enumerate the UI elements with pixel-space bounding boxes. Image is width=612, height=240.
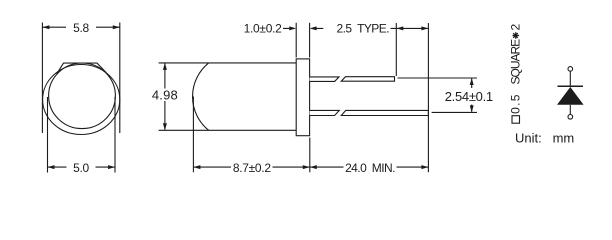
top lead (cathode), second segment to tip [341,77,394,82]
svg-text:2: 2 [509,24,523,31]
D1: anode triangle [557,87,584,105]
D1: bottom terminal circle (anode) [568,115,573,120]
dimension 24.0 MIN.: dimension line [310,166,429,168]
dimension 2.5 TYPE.: arrowheads [396,26,428,30]
LED top view: flat facet at top of inner circle [57,63,106,74]
note: square lead cross-section, rotated text [509,24,523,124]
D1: anode lead line [569,105,571,115]
bottom lead (anode), first segment with break [310,110,340,115]
LED polarity symbol D1: top terminal circle (cathode) [568,67,573,72]
svg-text:24.0 MIN.: 24.0 MIN. [345,161,395,175]
svg-text:8.7±0.2: 8.7±0.2 [233,161,271,175]
D1: cathode bar [558,85,584,87]
D1: cathode lead line [569,71,571,86]
dimension 4.98: dimension line [164,64,166,130]
dimension 5.8: arrowheads [42,25,119,29]
dimension 2.5 TYPE.: dimension line [391,27,428,29]
dimension 5.0: dimension line [48,166,116,168]
LED side view: body bottom line with extension [159,129,297,131]
svg-text:0.5: 0.5 [509,93,523,114]
svg-text:2.5 TYPE.: 2.5 TYPE. [336,22,389,36]
dimension 2.5 TYPE.: extension lines [396,23,428,172]
svg-text:SQUARE: SQUARE [509,39,523,85]
LED top view: outer flange circle (5.8 dia) [43,65,120,135]
dimension 24.0 MIN.: arrowheads [310,165,429,169]
svg-text:5.8: 5.8 [73,21,89,35]
bottom lead (anode), second segment to tip [341,110,428,115]
svg-text:Unit: mm: Unit: mm [515,130,574,145]
dimension 2.54±0.1: extension lines from lead tips [398,78,478,112]
top lead (cathode), first segment with break [310,77,339,82]
dimension 8.7±0.2: left extension line at dome tip [192,97,194,173]
LED side view: body top line with extension [159,62,297,64]
dimension 8.7±0.2: dimension line [193,166,309,168]
dimension 1.0±0.2: extension lines above flange [296,23,309,58]
svg-text:5.0: 5.0 [73,161,89,175]
svg-text:2.54±0.1: 2.54±0.1 [445,89,493,104]
LED side view: epoxy dome arc [193,63,209,130]
dimension 5.0: extension lines [48,97,116,173]
dimension 1.0±0.2: leader and outside arrows [283,27,323,29]
svg-text:1.0±0.2: 1.0±0.2 [244,22,282,36]
dimension 2.54±0.1: dimension line [471,79,473,112]
LED top view: inner epoxy body circle (5.0 dia) [49,63,116,129]
LED side view: flange rectangle (1.0 wide, 5.8 tall) [296,59,309,136]
dimension 4.98: arrowheads [163,63,167,130]
dimension 5.8: extension lines [42,23,119,134]
dimension 2.54±0.1: arrowheads [470,78,474,112]
dimension 8.7±0.2: arrowheads [193,165,309,169]
shared middle extension line under flange [309,138,311,173]
svg-text:4.98: 4.98 [152,87,178,102]
dimension 5.8: dimension line [42,26,119,28]
dimension 5.0: arrowheads [48,165,116,169]
